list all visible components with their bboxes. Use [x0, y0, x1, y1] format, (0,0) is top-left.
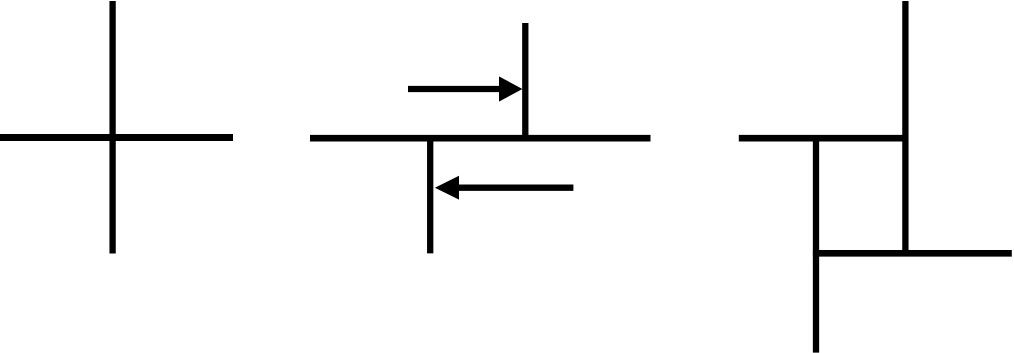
wire: figure-3 short vertical wire (starts on top horizontal) [813, 135, 819, 353]
wire: figure-1 vertical wire (plain crossing) [109, 1, 115, 254]
wire: figure-2 upper vertical stub (ends on horizontal wire) [522, 23, 528, 140]
wire: figure-2 lower vertical stub (starts on horizontal wire) [427, 135, 433, 253]
wire: figure-1 horizontal wire (plain crossing) [0, 134, 233, 141]
arrow pointing right at upper stub junction [408, 76, 522, 101]
wire: figure-2 horizontal wire [310, 135, 651, 142]
wire: figure-3 long vertical wire (ends on bottom horizontal) [902, 1, 908, 255]
wire: figure-3 top horizontal wire (ends on long vertical) [739, 135, 909, 142]
arrow pointing left at lower stub junction [435, 176, 574, 200]
wire: figure-3 bottom horizontal wire (starts on short vertical) [813, 250, 1012, 257]
